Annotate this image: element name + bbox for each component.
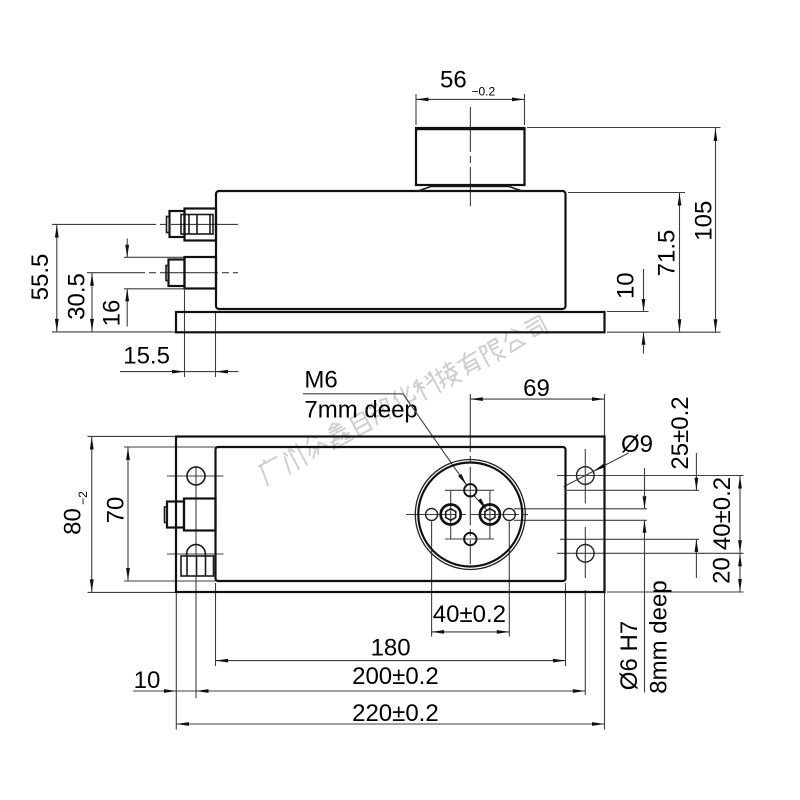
svg-text:69: 69 — [523, 375, 550, 402]
svg-text:−0.2: −0.2 — [472, 85, 496, 99]
svg-text:71.5: 71.5 — [653, 230, 680, 277]
svg-text:25±0.2: 25±0.2 — [667, 396, 694, 469]
svg-text:180: 180 — [371, 635, 411, 662]
svg-text:40±0.2: 40±0.2 — [433, 601, 506, 628]
svg-text:16: 16 — [99, 300, 126, 327]
svg-text:200±0.2: 200±0.2 — [352, 663, 439, 690]
svg-text:10: 10 — [612, 272, 639, 299]
svg-text:8mm deep: 8mm deep — [646, 580, 673, 693]
svg-text:7mm deep: 7mm deep — [304, 397, 417, 424]
svg-text:20: 20 — [709, 557, 736, 584]
svg-text:55.5: 55.5 — [27, 254, 54, 301]
svg-text:15.5: 15.5 — [123, 343, 170, 370]
svg-text:56: 56 — [440, 67, 467, 94]
svg-text:Ø6 H7: Ø6 H7 — [616, 621, 643, 690]
svg-text:40±0.2: 40±0.2 — [709, 477, 736, 550]
svg-text:220±0.2: 220±0.2 — [352, 700, 439, 727]
svg-text:30.5: 30.5 — [63, 273, 90, 320]
svg-text:10: 10 — [134, 667, 161, 694]
svg-text:80: 80 — [59, 508, 86, 535]
svg-text:105: 105 — [690, 201, 717, 241]
svg-text:70: 70 — [103, 497, 130, 524]
svg-text:−2: −2 — [76, 491, 90, 505]
svg-text:M6: M6 — [304, 367, 337, 394]
